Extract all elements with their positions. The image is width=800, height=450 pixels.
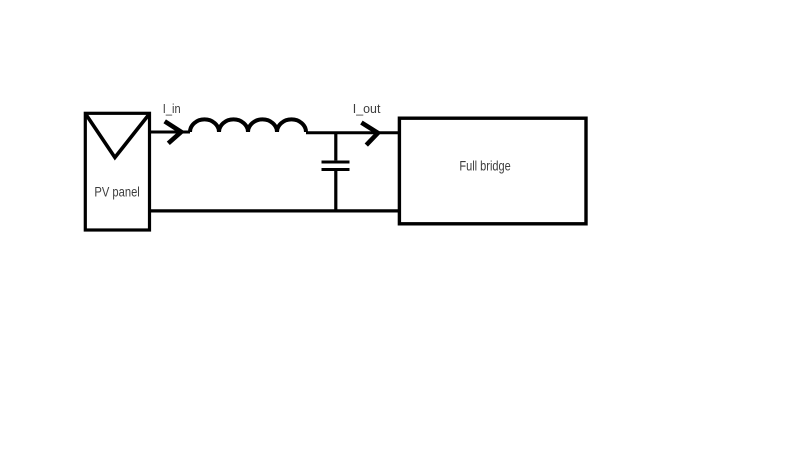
full bridge box: [399, 118, 586, 224]
PV panel box: [85, 113, 149, 230]
capacitor C1 bottom plate: [322, 168, 350, 171]
arrow I_in: [165, 121, 182, 143]
PV panel diode V symbol: [87, 115, 149, 157]
inductor L1: [190, 119, 306, 132]
wire: PV panel top output to inductor: [150, 131, 191, 134]
wire: inductor to full bridge: [306, 131, 399, 134]
wire: capacitor top lead: [334, 132, 337, 160]
capacitor C1 top plate: [322, 161, 350, 164]
wire: capacitor bottom lead: [334, 171, 337, 212]
svg-text:I_out: I_out: [353, 102, 381, 116]
wire: bottom return PV panel to full bridge: [150, 209, 400, 212]
svg-text:Full bridge: Full bridge: [459, 158, 511, 174]
svg-text:PV panel: PV panel: [94, 184, 139, 200]
arrow I_out: [361, 123, 378, 146]
svg-text:I_in: I_in: [163, 102, 181, 116]
